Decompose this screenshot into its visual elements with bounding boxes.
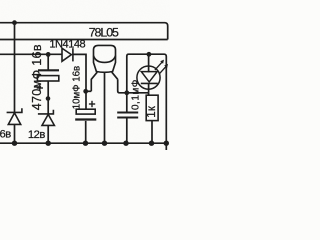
capacitor C2 plus sign: [89, 101, 95, 107]
wire output top rail with corner at C3: [127, 54, 167, 150]
LED arrow 1: [155, 60, 164, 70]
resistor R1 1k body: [146, 95, 158, 120]
zener diode VD1 6v: [7, 108, 22, 124]
wire C2 bottom lead to bottom bus: [85, 121, 87, 143]
node dot LED anode on output rail: [147, 52, 152, 57]
regulator DA1 78L05 TO-92 body: [91, 45, 117, 91]
node dot C2 top: [83, 89, 88, 94]
capacitor C2 10uF rectangle plate: [76, 109, 95, 114]
node dot C3 top: [124, 90, 129, 95]
wire LED cathode inside to resistor: [148, 84, 150, 93]
wire C1 bottom to zener VD2: [47, 81, 49, 114]
zener diode VD2 12v: [38, 110, 55, 126]
capacitor C2 plate bottom: [75, 118, 96, 120]
LED arrow 2: [159, 64, 168, 74]
node dot bottom bus VD1: [12, 141, 17, 146]
wire output corner down to C3 node: [126, 56, 128, 93]
wire C3 bottom lead to bottom bus: [126, 118, 128, 143]
node blob on C1-VD2 wire: [46, 96, 51, 101]
node dot bottom bus regulator gnd: [102, 141, 107, 146]
wire C3 top lead: [126, 93, 128, 112]
capacitor C1 rectangle plate: [37, 76, 58, 81]
wire top bus +U: [0, 23, 168, 40]
wire zener VD1 anode to bottom bus: [14, 125, 16, 143]
wire LED cathode stub to resistor top: [148, 93, 150, 95]
wire resistor bottom lead to bottom bus: [151, 121, 153, 144]
scan noise overlay: [0, 0, 1, 1]
node dot bottom bus C2: [83, 141, 88, 146]
capacitor C1 470uF plate top: [38, 69, 59, 71]
node dot bottom bus C3: [123, 141, 128, 146]
wire mid rail y39.5: [0, 39, 168, 41]
wire regulator middle leg to bottom bus: [104, 72, 106, 143]
node dot input rail / C1: [46, 52, 51, 57]
wire zener VD2 anode to bottom bus: [47, 126, 49, 144]
wire LED anode lead from output rail: [148, 54, 150, 72]
LED cathode bar: [141, 82, 158, 84]
node dot bottom bus right edge: [164, 141, 169, 146]
wire C1 tap from input rail: [47, 54, 49, 69]
wire input rail left y54.3: [0, 53, 62, 55]
node dot on top bus at x14.5: [12, 20, 17, 25]
wire C2 top node to regulator left leg: [86, 90, 92, 92]
LED HL1 circle: [137, 66, 160, 89]
node dot bottom bus VD2: [46, 141, 51, 146]
regulator left leg: [91, 72, 97, 91]
regulator right leg: [112, 72, 118, 79]
capacitor C1 plus sign: [37, 85, 43, 91]
node dot bottom bus resistor: [149, 141, 154, 146]
wire diode to corner and down to C2: [73, 54, 86, 108]
wire regulator right leg down and output rail right: [118, 79, 149, 93]
wire bottom bus: [0, 142, 166, 144]
LED triangle: [141, 72, 157, 82]
wire vertical from top bus through crossings to zener VD1: [14, 23, 16, 113]
diode VD3 1N4148: [62, 48, 73, 61]
capacitor C3 0.1uF plates: [117, 113, 138, 118]
